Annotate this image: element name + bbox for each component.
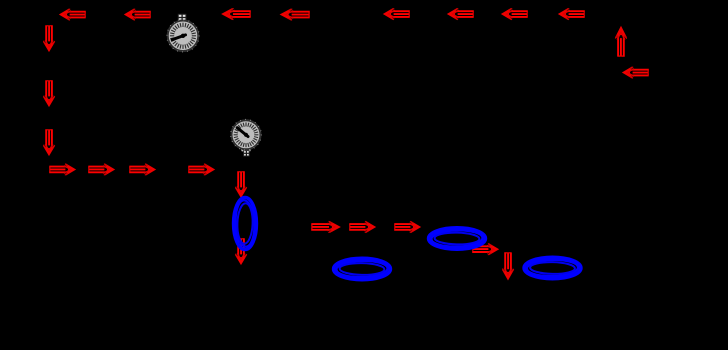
wire: left column arrow 1 (downward)	[43, 25, 55, 50]
vessel ellipse E3 (around hidden label)	[524, 257, 581, 278]
wire: top return line arrow 8 (leftward)	[559, 8, 584, 19]
wire: arrow down to ellipse E3 region (downward)	[502, 252, 514, 279]
wire: middle row arrow 3 (rightward)	[394, 221, 419, 233]
wire: bottom-left row arrow 1 (rightward)	[49, 164, 74, 176]
stopwatch gauge G1	[167, 14, 199, 52]
wire: right side vertical arrow (upward)	[615, 28, 627, 57]
wire: bottom-left row arrow 3 (rightward)	[129, 164, 154, 176]
vessel ellipse EV (vertical, around hidden label)	[234, 198, 257, 250]
wire: arrow below pressure gauge (downward)	[235, 171, 247, 196]
pressure gauge G2	[231, 120, 262, 157]
wire: top return line arrow 7 (leftward)	[502, 8, 527, 19]
wire: middle row arrow 1 (rightward)	[311, 221, 339, 233]
wire: bottom-left row arrow 4 (rightward)	[188, 164, 213, 176]
vessel ellipse E1 (around hidden label)	[334, 258, 391, 279]
wire: top return line arrow 3 (leftward)	[223, 8, 251, 19]
wire: bottom-left row arrow 2 (rightward)	[88, 164, 113, 176]
wire: top return line arrow 5 (leftward)	[384, 8, 409, 19]
wire: arrow right of ellipse E2 (rightward)	[472, 243, 497, 255]
wire: right side horizontal arrow (leftward)	[623, 67, 648, 79]
wire: top return line arrow 2 (leftward)	[125, 9, 150, 20]
wire: left column arrow 2 (downward)	[43, 80, 55, 105]
wire: middle row arrow 2 (rightward)	[349, 221, 374, 233]
wire: arrow through bottom of vertical ellipse (downward)	[235, 238, 247, 263]
wire: top return line arrow 6 (leftward)	[448, 8, 473, 19]
wire: top return line arrow 4 (leftward)	[281, 9, 309, 20]
wire: top return line arrow 1 (leftward)	[60, 9, 85, 20]
vessel ellipse E2 (around hidden label)	[429, 228, 486, 249]
wire: left column arrow 3 (downward)	[43, 129, 55, 154]
